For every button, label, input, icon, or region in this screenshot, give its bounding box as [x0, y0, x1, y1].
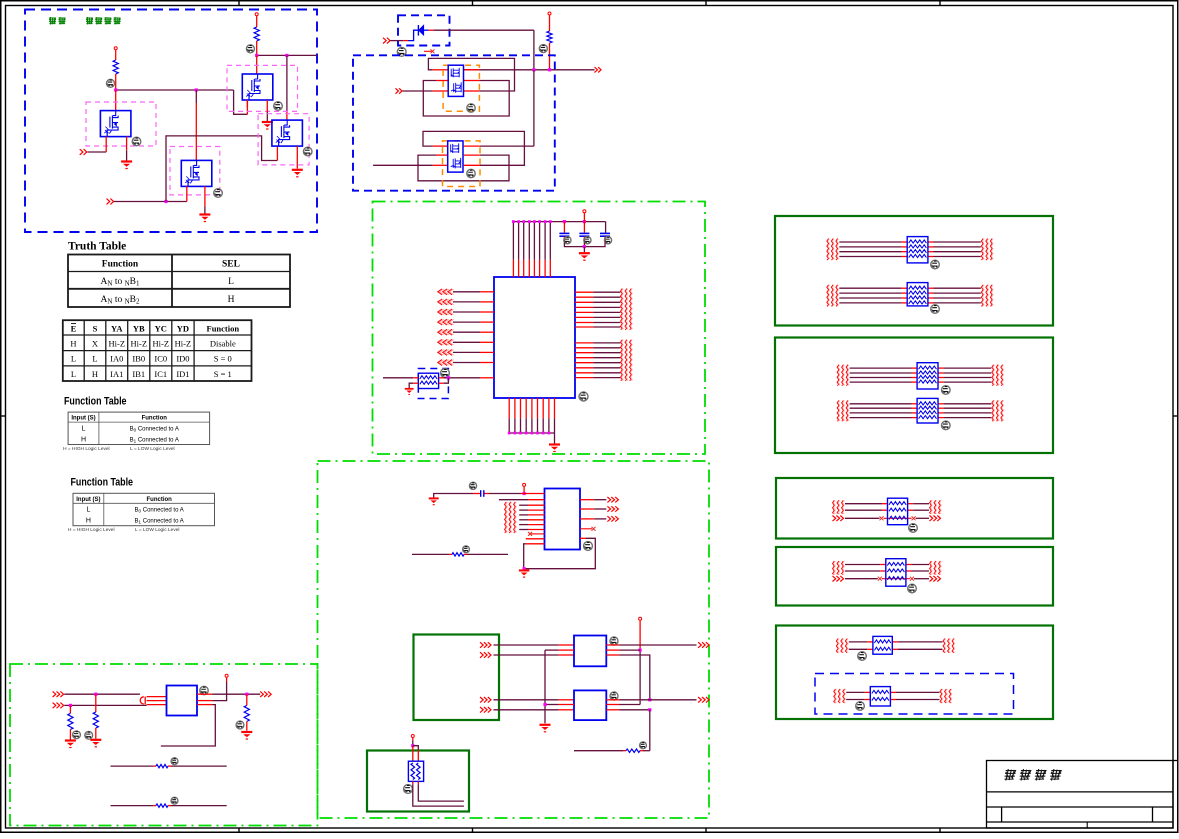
dual transistor U2 (orange dashed group) — [443, 65, 479, 111]
wire RP1 row2 to ground — [413, 382, 418, 384]
RP6 right bus arrows — [992, 400, 994, 421]
wire M2 drain — [195, 90, 197, 103]
dual transistor U3 (orange dashed group) — [443, 141, 481, 187]
U1 left pins — [438, 289, 452, 295]
balloon Q2 — [214, 189, 223, 198]
svg-text:B1 Connected to A: B1 Connected to A — [130, 438, 179, 444]
decoupling caps C1 C2 C3 — [605, 222, 607, 233]
ground bus bottom — [509, 432, 554, 434]
termination box B (dark green) — [775, 338, 1053, 454]
ground U1 — [549, 445, 560, 452]
border zone tick right — [1173, 415, 1177, 417]
output port top-middle — [595, 67, 602, 72]
input port X2 — [53, 703, 64, 709]
svg-text:H = HIGH Logic Level: H = HIGH Logic Level — [68, 527, 115, 533]
wire stub U3 pin3 left — [373, 164, 433, 166]
wire loop A upper — [428, 58, 514, 91]
resistor R8 — [69, 705, 71, 713]
RP10 right bus arrows — [940, 689, 942, 703]
pull resistor box (dark green) — [367, 751, 469, 812]
ground R7 — [90, 740, 101, 747]
svg-text:Input (S): Input (S) — [76, 497, 100, 503]
input port U2 pin3 — [396, 88, 403, 93]
svg-text:B0 Connected to A: B0 Connected to A — [130, 426, 179, 432]
balloon RP9 — [858, 652, 867, 661]
resistor R5 — [412, 553, 449, 555]
balloon Q1 — [132, 137, 141, 146]
wire RP2 out2 — [417, 781, 419, 784]
ground C4 — [434, 494, 438, 498]
resistor pack RP1 group (blue dashed) — [418, 369, 448, 399]
reference circuit group box (blue dashed) — [25, 10, 317, 233]
RP4 wires — [839, 287, 901, 289]
U3 pin stubs — [433, 145, 448, 147]
ground RP1 — [405, 389, 414, 395]
resistor pack RP2 — [408, 761, 423, 781]
svg-text:S: S — [93, 324, 98, 334]
bypass cap C4 — [438, 493, 473, 495]
termination box D (dark green) — [776, 547, 1053, 606]
label 參考 公版線路 — [49, 17, 121, 25]
svg-text:H: H — [92, 369, 98, 379]
resistor pack RP10 — [870, 687, 890, 706]
wire X1 to U7 — [64, 693, 140, 695]
ground Q4 — [292, 170, 303, 177]
svg-text:X: X — [92, 338, 98, 348]
resistor R6 — [574, 750, 623, 752]
wire Q3 source down — [246, 100, 248, 108]
power U4 — [523, 483, 526, 486]
RP7 right bus arrows — [930, 500, 932, 513]
svg-text:S = 0: S = 0 — [214, 354, 232, 364]
transistor group Q4 (magenta dashed) — [258, 114, 309, 165]
wire Q4 to ground — [296, 146, 298, 169]
svg-text:L: L — [92, 354, 97, 364]
balloon RP2 — [404, 785, 413, 794]
ground caps — [579, 253, 590, 260]
wire to U3 pin1 right — [480, 145, 534, 147]
transistor Q4 — [272, 120, 303, 146]
wire U5 vcc pin — [606, 649, 619, 651]
wires J1 to U5 — [494, 644, 559, 646]
input port X1 — [53, 691, 64, 697]
svg-text:Hi-Z: Hi-Z — [175, 338, 192, 348]
balloon U6 — [610, 692, 618, 700]
svg-text:L: L — [82, 425, 86, 432]
U4 pin stub — [526, 538, 545, 540]
balloon RP4 — [931, 305, 940, 314]
resistor pack RP7 — [888, 498, 908, 525]
RP9 left bus arrows — [836, 639, 838, 653]
wire input to diode — [391, 40, 404, 42]
wire to R6 — [649, 710, 651, 751]
svg-text:H: H — [86, 518, 91, 525]
VCC bus — [513, 221, 605, 223]
IC U5 — [574, 636, 606, 667]
svg-text:L: L — [86, 507, 90, 514]
output rail y=69.8 — [464, 69, 595, 71]
svg-text:L = LOW Logic Level: L = LOW Logic Level — [135, 527, 179, 533]
balloon R7 — [85, 731, 93, 739]
RP8 left bus arrows — [833, 561, 835, 574]
RP5 left bus arrows — [837, 365, 839, 386]
U4 right pins — [580, 499, 594, 501]
wire diode to rail — [533, 30, 535, 70]
node rail2 — [257, 54, 317, 56]
wire U4 bottom loop to pin — [526, 543, 545, 545]
RP8 right bus arrows — [930, 561, 932, 574]
input port 2 — [107, 199, 114, 205]
svg-text:E: E — [71, 324, 77, 334]
termination box C (dark green) — [776, 478, 1053, 539]
connector box J1 (dark green) — [414, 635, 500, 721]
balloon R3 — [539, 45, 547, 53]
svg-text:YA: YA — [111, 324, 123, 334]
resistor R1 — [113, 60, 118, 74]
RP7 left bus arrows — [833, 500, 835, 513]
bottom-left group box (green dash-dot) — [10, 664, 318, 826]
wire C5 to U7 pins — [147, 696, 167, 698]
resistor pack RP5 — [917, 363, 938, 389]
balloon R11 — [171, 797, 178, 804]
wire M1 drain — [115, 90, 117, 111]
resistor R11 — [111, 805, 154, 807]
cap ground bus — [564, 243, 605, 247]
wire U4 pin2 stub — [499, 499, 528, 501]
polarized cap C5 — [140, 697, 144, 704]
svg-text:IA1: IA1 — [110, 369, 123, 379]
wire Q1 to ground — [126, 137, 128, 151]
resistor pack RP1 — [418, 373, 438, 388]
wire U6 gnd pin — [545, 704, 559, 706]
IC U7 — [167, 686, 198, 716]
input port diode — [383, 38, 390, 44]
transistor group Q2 (magenta dashed) — [170, 147, 220, 195]
wire input to U2 — [403, 90, 433, 92]
svg-text:Function: Function — [142, 416, 168, 422]
resistor pack RP8 — [886, 559, 906, 587]
logic function table — [63, 320, 252, 381]
RP3 right bus arrows — [981, 239, 983, 260]
U4 nc pin — [531, 533, 545, 535]
ground Q3 — [262, 122, 273, 129]
transistor Q1 — [100, 111, 130, 137]
svg-text:H: H — [81, 437, 86, 444]
svg-text:Function Table: Function Table — [71, 477, 134, 489]
svg-text:H: H — [228, 295, 235, 305]
RP8 wires — [845, 564, 880, 566]
transistor group Q1 (magenta dashed) — [86, 102, 156, 146]
balloon U5 — [610, 637, 618, 645]
main IC group box (green dash-dot) — [373, 202, 706, 455]
balloon RP8 — [908, 584, 917, 593]
border zone ticks top — [238, 1, 240, 6]
svg-text:AN to NB1: AN to NB1 — [101, 277, 140, 288]
svg-text:L = LOW Logic Level: L = LOW Logic Level — [130, 446, 174, 452]
balloon RP10 — [856, 702, 865, 711]
svg-text:YB: YB — [133, 324, 145, 334]
wire RP1 row2 loop — [439, 382, 444, 384]
RP7 input arrow row3 — [833, 516, 844, 522]
termination box E (dark green) — [776, 626, 1053, 720]
RP6 wires — [850, 403, 912, 405]
output port A — [698, 642, 709, 648]
balloon RP6 — [942, 421, 951, 430]
wire U5 pin3 to U6 — [606, 654, 619, 656]
power U7 — [225, 674, 228, 677]
wire U5 out1 — [606, 644, 619, 646]
balloon U7 — [200, 686, 208, 694]
svg-text:S = 1: S = 1 — [214, 369, 232, 379]
RP6 left bus arrows — [837, 400, 839, 421]
transistor Q2 — [181, 160, 212, 186]
resistor pack RP9 — [873, 636, 892, 654]
company name 綜創資通 (drawn strokes) — [1004, 769, 1063, 781]
balloon RP5 — [942, 386, 951, 395]
resistor pack RP4 — [907, 283, 928, 306]
transistor Q3 — [242, 74, 272, 100]
U2 pin stubs — [433, 69, 449, 71]
svg-text:B1 Connected to A: B1 Connected to A — [135, 519, 184, 525]
svg-text:Hi-Z: Hi-Z — [130, 338, 147, 348]
U1 bottom pins — [508, 398, 510, 418]
U1 right pins group A — [575, 291, 593, 293]
wire Q2 to ground — [204, 186, 206, 206]
balloon C4 — [469, 482, 476, 489]
option group (blue dashed) — [815, 674, 1014, 715]
RP8 input arrow row3 — [833, 576, 844, 582]
svg-text:IB0: IB0 — [132, 354, 145, 364]
IC U6 — [574, 690, 606, 720]
svg-text:ID1: ID1 — [176, 369, 189, 379]
wire U6 out — [606, 699, 619, 701]
IC U4 — [545, 489, 581, 550]
balloon R9 — [236, 721, 244, 729]
wire crossover net — [166, 136, 277, 202]
svg-text:IC1: IC1 — [154, 369, 167, 379]
wire RP1 to U1 — [439, 377, 444, 379]
ground R8 — [65, 741, 76, 748]
RP9 wires — [849, 641, 868, 643]
balloon Q3 — [274, 102, 283, 111]
balloon RP7 — [909, 524, 918, 533]
power RP2 — [411, 735, 414, 738]
transistor group Q3 (magenta dashed) — [227, 65, 298, 111]
balloon R2 — [246, 45, 254, 53]
diode group box (blue dashed) — [398, 15, 450, 45]
power VCC3 — [548, 12, 551, 15]
RP3 left bus arrows — [827, 239, 829, 260]
wire Q3 to ground — [266, 100, 268, 112]
U1 top pins — [512, 260, 514, 277]
svg-text:Function Table: Function Table — [64, 396, 127, 408]
wire U5 gnd pin — [545, 649, 559, 651]
lower group box (green dash-dot) — [318, 461, 710, 818]
Truth Table — [68, 255, 290, 308]
RP7 wires — [845, 503, 882, 505]
wire diode anode — [424, 29, 429, 31]
wire loop C lower — [423, 131, 524, 165]
RP5 right bus arrows — [992, 365, 994, 386]
svg-text:B0 Connected to A: B0 Connected to A — [135, 508, 184, 514]
balloon U2 — [467, 104, 475, 112]
balloon D1 — [397, 48, 406, 57]
U1 right pins group B — [575, 342, 593, 344]
svg-text:L: L — [71, 354, 76, 364]
RP4 right bus arrows — [981, 285, 983, 307]
resistor pack RP3 — [907, 237, 928, 263]
balloon RP3 — [931, 260, 940, 269]
wire input2 — [114, 201, 187, 203]
power VCC U5/U6 — [639, 617, 642, 620]
U4 left input pins — [519, 504, 528, 506]
wire RP2 out1 — [412, 781, 414, 784]
ground rail U5/U6 — [544, 650, 546, 723]
svg-text:AN to NB2: AN to NB2 — [101, 295, 140, 306]
balloon R8 — [73, 731, 81, 739]
wire U7 out — [197, 693, 212, 695]
svg-text:IB1: IB1 — [132, 369, 145, 379]
svg-text:Function: Function — [102, 260, 139, 270]
svg-text:H = HIGH Logic Level: H = HIGH Logic Level — [63, 446, 110, 452]
svg-text:IA0: IA0 — [110, 354, 123, 364]
RP10 wires — [846, 691, 865, 693]
svg-text:SEL: SEL — [222, 260, 240, 270]
balloon R1 — [107, 79, 115, 87]
svg-text:Disable: Disable — [210, 338, 236, 348]
diode D1 — [419, 25, 424, 35]
dual transistor group box (blue dashed) — [353, 55, 555, 190]
wire RP2 pins top — [412, 746, 414, 762]
RP10 left bus arrows — [834, 689, 836, 703]
wires J1 to U6 — [494, 699, 559, 701]
svg-text:Input (S): Input (S) — [71, 416, 95, 422]
no-connect pin — [424, 50, 432, 52]
wire M3 drain — [256, 55, 258, 74]
svg-text:H: H — [70, 338, 76, 348]
ground R9 — [241, 732, 252, 739]
output port B — [698, 697, 709, 703]
power VCC main — [583, 210, 586, 213]
wire loop D lower — [418, 155, 509, 181]
balloon R10 — [171, 758, 178, 765]
wire power to U7 — [212, 682, 227, 701]
title block — [987, 761, 1178, 829]
wire loop B upper — [423, 81, 509, 117]
svg-text:ID0: ID0 — [176, 354, 189, 364]
ground Q2 — [199, 215, 210, 222]
IC U1 — [494, 277, 575, 398]
balloon RP1 — [441, 369, 450, 378]
resistor R9 — [246, 694, 248, 705]
wire U6 pin3 — [606, 709, 619, 711]
svg-text:IC0: IC0 — [154, 354, 167, 364]
node rail1 — [116, 89, 234, 91]
power VCC1 — [114, 47, 117, 50]
resistor pack RP6 — [917, 398, 938, 423]
input port 1 — [80, 149, 87, 155]
wire input1 to Q1 source — [88, 151, 107, 153]
svg-text:Function: Function — [207, 324, 240, 334]
svg-text:Truth Table: Truth Table — [68, 241, 126, 253]
svg-text:YC: YC — [155, 324, 167, 334]
resistor R2 — [254, 27, 259, 41]
balloon Q4 — [303, 147, 312, 156]
svg-text:L: L — [228, 277, 234, 287]
svg-text:Function: Function — [146, 497, 172, 503]
wire X2 to U7 — [64, 704, 146, 706]
resistor R10 — [111, 765, 154, 767]
border zone ticks bottom — [238, 828, 240, 832]
svg-text:YD: YD — [177, 324, 189, 334]
termination box A (dark green) — [775, 216, 1053, 326]
resistor R3 — [547, 31, 552, 43]
svg-text:Hi-Z: Hi-Z — [153, 338, 170, 348]
resistor R7 — [95, 694, 97, 712]
balloon U3 — [467, 169, 475, 177]
ground Q1 — [121, 162, 132, 169]
wire M4 drain — [286, 55, 288, 112]
wire diode branch down — [533, 70, 535, 146]
wire U7 pin3 loop — [197, 704, 212, 706]
RP3 wires — [839, 241, 901, 243]
balloon R6 — [640, 742, 647, 749]
power VCC2 — [255, 13, 258, 16]
wire U6 vcc pin — [606, 704, 619, 706]
RP4 left bus arrows — [827, 285, 829, 307]
RP9 right bus arrows — [943, 639, 945, 653]
balloon U4 — [584, 542, 593, 551]
RP5 wires — [850, 367, 912, 369]
ground U4 — [519, 570, 529, 577]
balloon U1 — [579, 392, 588, 401]
border zone tick left — [1, 415, 6, 417]
svg-text:Hi-Z: Hi-Z — [108, 338, 125, 348]
balloon R5 — [463, 546, 470, 553]
J1 port arrows — [480, 642, 491, 648]
wire M3 source to rail — [234, 90, 248, 114]
wire RP1 row1 left — [383, 377, 413, 379]
output port X3 — [260, 691, 271, 697]
svg-text:L: L — [71, 369, 76, 379]
